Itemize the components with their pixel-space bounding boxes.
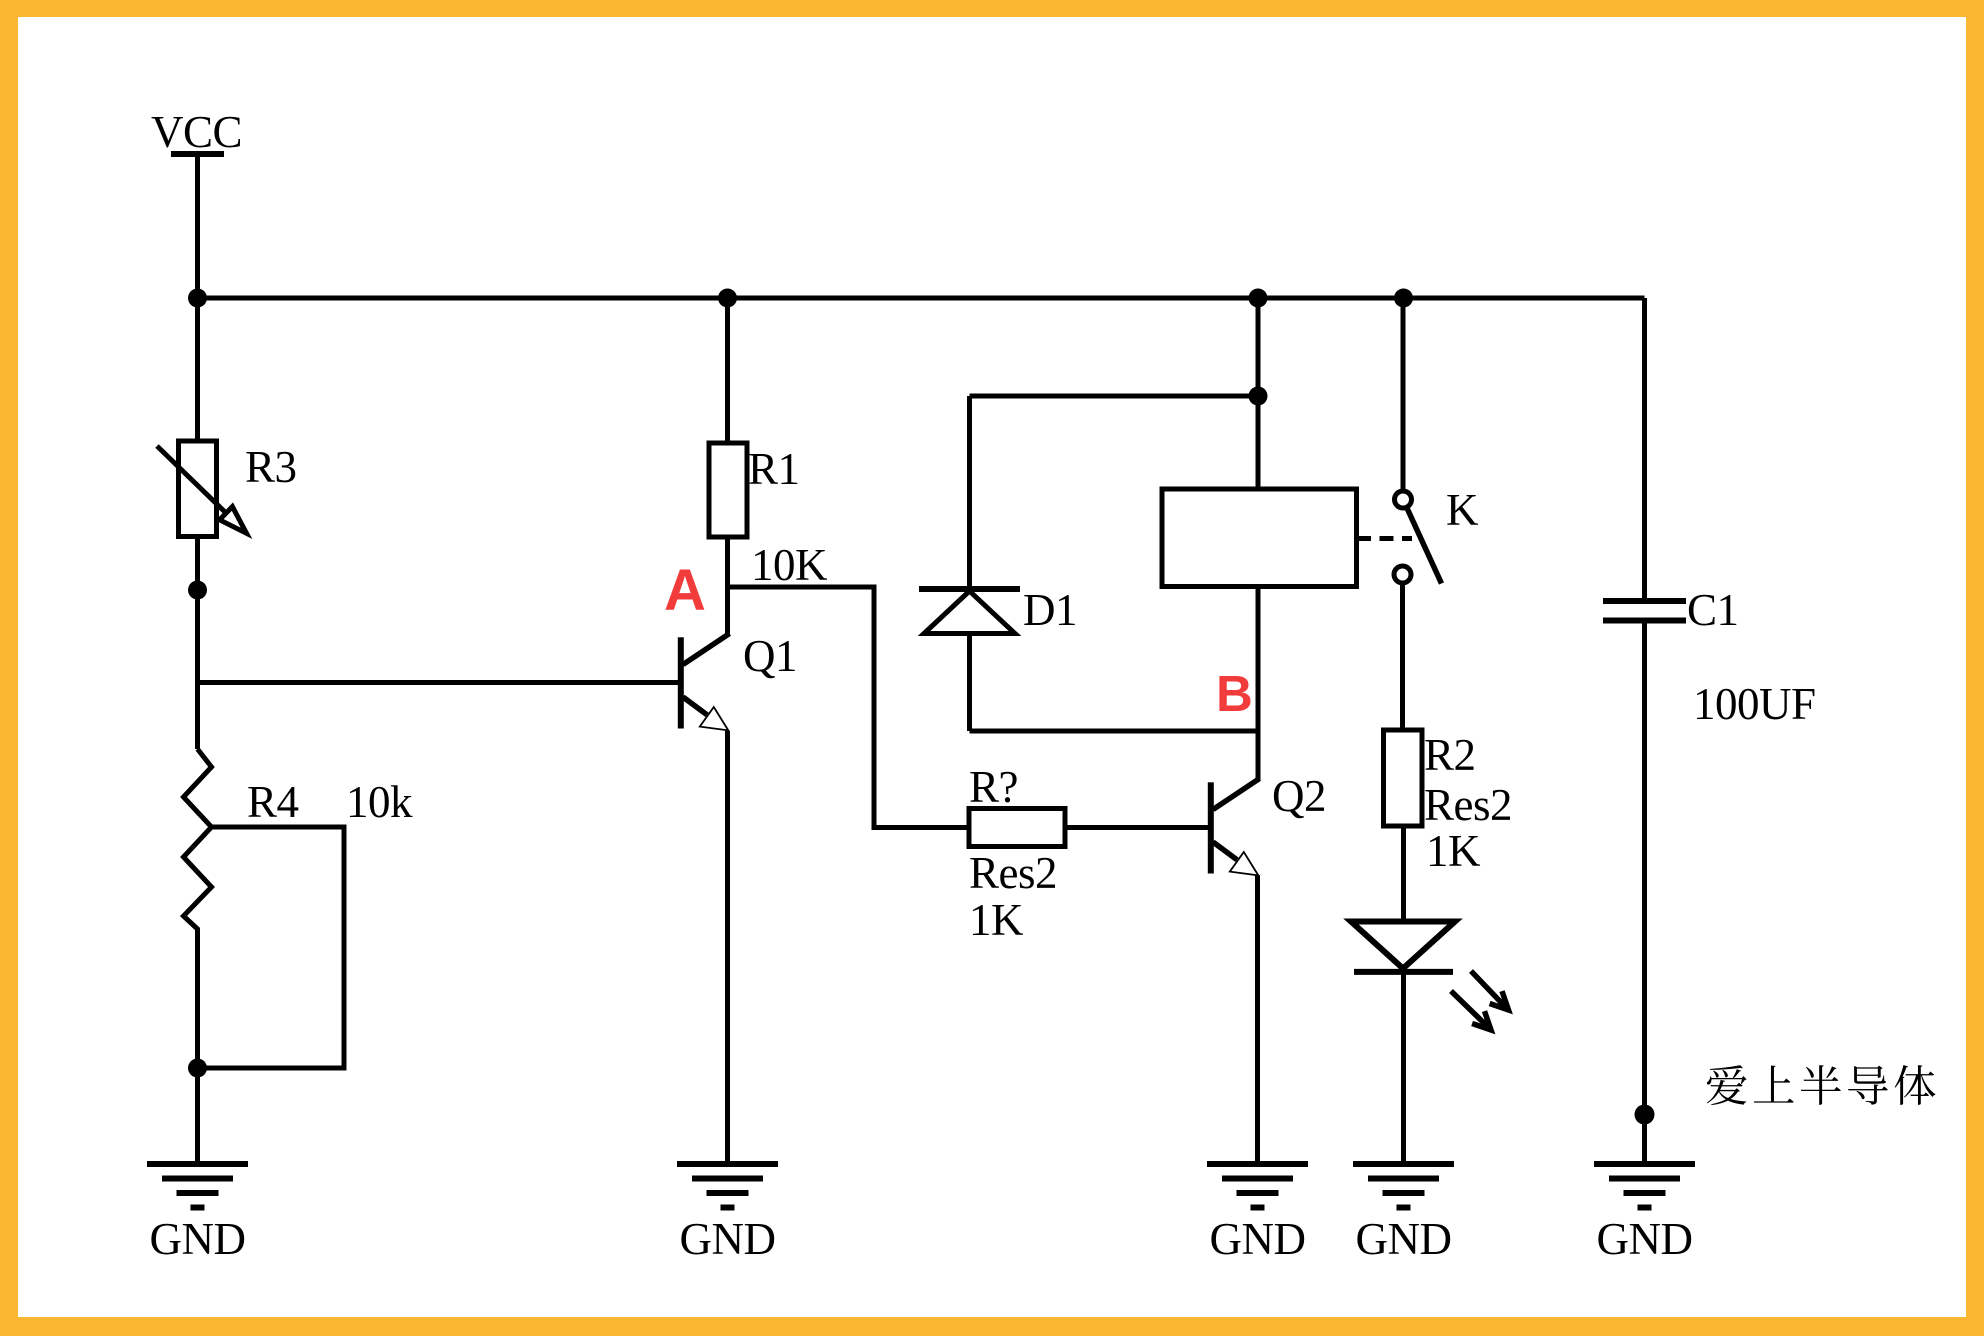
svg-text:GND: GND <box>680 1214 776 1264</box>
watermark hanzi shang (up) <box>1754 1065 1794 1102</box>
wire top bus <box>198 296 1645 301</box>
svg-text:C1: C1 <box>1687 585 1739 635</box>
svg-text:GND: GND <box>1356 1214 1452 1264</box>
svg-text:Q1: Q1 <box>743 631 797 681</box>
svg-text:K: K <box>1446 485 1479 535</box>
svg-text:Q2: Q2 <box>1272 771 1326 821</box>
wire R4 bottom to ground <box>195 1068 200 1164</box>
wire R? to Q2 base <box>1065 825 1209 830</box>
wire R1 to Q1 collector <box>725 537 730 636</box>
svg-text:B: B <box>1216 665 1253 722</box>
junction dot bus-R3 <box>188 289 207 308</box>
resistor R1 body <box>709 443 747 537</box>
wire R1 top <box>725 298 730 443</box>
wire Q1 base <box>198 680 679 685</box>
ground symbol 1 <box>147 1164 248 1208</box>
wire R3 to base node <box>195 537 200 750</box>
svg-text:10k: 10k <box>346 777 413 827</box>
relay K coil <box>1162 489 1357 587</box>
junction dot C1 ground <box>1635 1105 1655 1125</box>
svg-text:10K: 10K <box>751 540 828 590</box>
watermark hanzi dao (guide) <box>1848 1066 1888 1105</box>
switch K bottom contact <box>1394 566 1411 583</box>
wire LED to ground <box>1401 972 1406 1164</box>
diode D1 <box>919 586 1020 592</box>
LED D? <box>1351 922 1455 969</box>
transistor Q2 <box>1208 782 1214 873</box>
junction dot bus-R1 <box>718 289 737 308</box>
wire D1 anode down <box>967 634 972 732</box>
svg-text:GND: GND <box>1210 1214 1306 1264</box>
wire bus to R3 <box>195 298 200 441</box>
watermark hanzi ti (body) <box>1895 1065 1936 1105</box>
svg-text:R4: R4 <box>247 777 299 827</box>
LED light arrows <box>1471 971 1504 1006</box>
ground symbol 5 <box>1594 1164 1695 1208</box>
watermark hanzi ai (love) <box>1707 1065 1747 1105</box>
wire D1 cathode up <box>967 396 972 589</box>
wire relay to Q2 collector <box>1256 587 1261 782</box>
junction dot D1-relay wire <box>1249 387 1268 406</box>
svg-text:R3: R3 <box>245 442 297 492</box>
svg-text:Res2: Res2 <box>1424 780 1512 830</box>
ground symbol 2 <box>677 1164 778 1208</box>
capacitor C1 <box>1603 598 1686 604</box>
wire VCC to bus <box>195 154 200 298</box>
svg-text:100UF: 100UF <box>1693 679 1816 729</box>
wire bus to relay <box>1256 298 1261 489</box>
svg-text:D1: D1 <box>1023 585 1077 635</box>
svg-text:1K: 1K <box>1426 826 1481 876</box>
svg-text:A: A <box>664 558 706 623</box>
resistor R4 zigzag <box>184 749 212 1068</box>
VCC power symbol <box>171 151 224 157</box>
wire Q1 emitter to ground <box>725 731 730 1164</box>
resistor R3 arrow <box>157 446 226 513</box>
resistor R? body <box>969 809 1065 847</box>
junction dot R3-R4 node <box>188 581 207 600</box>
svg-text:R1: R1 <box>748 444 800 494</box>
junction dot R4 bottom tap <box>188 1059 207 1078</box>
junction dot bus-switch K <box>1394 289 1413 308</box>
svg-text:1K: 1K <box>969 895 1024 945</box>
svg-text:R?: R? <box>969 762 1018 812</box>
svg-text:R2: R2 <box>1424 730 1476 780</box>
wire node B horizontal <box>970 729 1259 734</box>
svg-text:VCC: VCC <box>151 107 242 157</box>
resistor R3 body <box>179 441 217 537</box>
switch K blade <box>1407 507 1442 584</box>
ground symbol 4 <box>1353 1164 1454 1208</box>
transistor Q1 <box>678 637 684 728</box>
wire R4 tap branch <box>202 827 344 1068</box>
switch K linkage dashed <box>1357 536 1412 541</box>
switch K top contact <box>1395 491 1412 508</box>
wire D1 top horizontal <box>970 394 1259 399</box>
junction dot bus-relay <box>1249 289 1268 308</box>
svg-text:Res2: Res2 <box>969 848 1057 898</box>
svg-text:GND: GND <box>150 1214 246 1264</box>
wire node A horizontal <box>728 587 970 828</box>
wire Q2 emitter to ground <box>1255 875 1260 1164</box>
wire bus to switch K <box>1401 298 1406 490</box>
wire bus right drop to C1 <box>1642 298 1647 598</box>
wire R2 to LED <box>1401 826 1406 922</box>
wire C1 to ground <box>1642 624 1647 1165</box>
ground symbol 3 <box>1207 1164 1308 1208</box>
resistor R2 body <box>1384 730 1423 826</box>
watermark hanzi ban (half) <box>1801 1065 1841 1105</box>
svg-text:GND: GND <box>1597 1214 1693 1264</box>
wire switch K to R2 <box>1400 583 1405 730</box>
